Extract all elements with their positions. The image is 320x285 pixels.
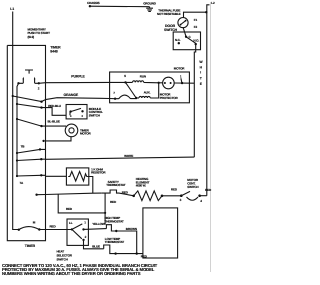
svg-text:T: T xyxy=(200,77,203,81)
svg-text:YELLOW: YELLOW xyxy=(92,222,104,226)
timer contact M xyxy=(18,229,20,231)
svg-text:RUN: RUN xyxy=(140,74,147,78)
timer box xyxy=(7,45,45,240)
svg-text:RED: RED xyxy=(50,224,57,228)
wire cent switch to L2 xyxy=(200,195,207,197)
svg-text:TB: TB xyxy=(21,144,26,148)
switch label push-to-start xyxy=(28,27,51,39)
svg-text:CHASSIS: CHASSIS xyxy=(87,1,100,5)
svg-text:9448: 9448 xyxy=(50,49,57,53)
timer contact TB stub xyxy=(21,144,26,148)
wire line A red xyxy=(46,193,102,194)
wire red to heat selector xyxy=(39,229,72,231)
chassis terminal xyxy=(87,1,100,5)
thermostat safety xyxy=(102,190,134,196)
svg-text:SWITCH: SWITCH xyxy=(164,28,178,32)
wire white vertical xyxy=(194,44,195,157)
svg-text:C: C xyxy=(189,35,192,39)
svg-text:LL: LL xyxy=(69,221,73,225)
timer contact line A xyxy=(35,194,37,196)
wire red-blu xyxy=(46,108,67,116)
svg-text:SWITCH: SWITCH xyxy=(57,258,69,262)
svg-text:4050 W.: 4050 W. xyxy=(136,184,146,188)
svg-text:TIMER: TIMER xyxy=(25,244,36,248)
svg-text:THERMOSTAT: THERMOSTAT xyxy=(104,220,124,224)
thermostat low temp xyxy=(104,245,116,254)
svg-text:4: 4 xyxy=(200,199,202,203)
module control switch xyxy=(66,105,87,119)
thermostat high temp xyxy=(106,225,116,231)
svg-text:H: H xyxy=(200,66,203,70)
svg-text:E: E xyxy=(200,82,203,86)
svg-text:ORANGE: ORANGE xyxy=(64,93,79,97)
ground xyxy=(146,7,153,12)
svg-text:RED: RED xyxy=(122,191,129,195)
motor out to white xyxy=(174,82,194,84)
motor protector xyxy=(158,82,160,84)
motor aux winding xyxy=(114,98,116,100)
svg-text:WHITE: WHITE xyxy=(124,154,133,158)
wire to resistor xyxy=(46,175,67,177)
svg-text:BROWN: BROWN xyxy=(126,227,138,231)
timer contact to red-blu xyxy=(16,103,18,105)
svg-text:BLUE: BLUE xyxy=(92,244,100,248)
door switch S1 xyxy=(164,24,178,32)
svg-text:2: 2 xyxy=(38,86,40,90)
svg-text:BL-BLUE: BL-BLUE xyxy=(48,119,60,123)
svg-text:THERMOSTAT: THERMOSTAT xyxy=(105,240,125,244)
svg-text:7: 7 xyxy=(113,91,115,95)
motor run winding xyxy=(124,81,126,83)
svg-text:2: 2 xyxy=(82,115,84,118)
svg-text:SWITCH: SWITCH xyxy=(187,185,199,189)
wire yellow xyxy=(84,228,107,231)
svg-text:GROUND: GROUND xyxy=(143,1,157,5)
node L1 xyxy=(10,7,14,11)
wire L1 bus xyxy=(13,12,19,230)
svg-text:3: 3 xyxy=(180,198,182,202)
motor box xyxy=(110,72,190,103)
wire chassis to ground xyxy=(90,5,150,8)
svg-text:F1: F1 xyxy=(194,18,198,22)
timer motor M1 xyxy=(65,124,78,137)
resistor R1 1K OHM xyxy=(66,168,88,185)
wire L2 vertical xyxy=(207,5,210,196)
svg-text:PURPLE: PURPLE xyxy=(71,75,85,79)
wire brown xyxy=(116,231,136,254)
svg-text:1: 1 xyxy=(180,74,182,78)
wire down to high temp xyxy=(104,193,106,225)
thermal fuse xyxy=(178,18,188,28)
wire fuse to door switch xyxy=(183,28,186,37)
svg-text:I: I xyxy=(200,71,201,75)
svg-text:4: 4 xyxy=(70,115,72,118)
svg-text:7A: 7A xyxy=(20,181,25,185)
switch motor centrifugal xyxy=(180,194,183,197)
svg-text:L1: L1 xyxy=(10,7,14,11)
svg-text:1: 1 xyxy=(84,221,86,225)
wire purple xyxy=(39,81,126,84)
switch push-to-start xyxy=(25,70,33,74)
wire white xyxy=(46,157,195,159)
node L2 xyxy=(211,1,215,5)
wire red low temp out xyxy=(116,253,143,255)
wire vertical to line B xyxy=(58,194,105,213)
wire bl-blue xyxy=(46,125,67,127)
wire resistor to heater line xyxy=(89,177,93,194)
svg-text:N.O.: N.O. xyxy=(193,39,199,43)
timer contact to orange xyxy=(12,95,14,97)
timer contact to white xyxy=(16,159,18,161)
svg-text:NUMBERS WHEN WRITING ABOUT THI: NUMBERS WHEN WRITING ABOUT THIS DRYER OR… xyxy=(2,271,141,276)
scan artifact right edge xyxy=(209,2,211,272)
heating element 4050W xyxy=(132,195,135,198)
svg-text:(9L9): (9L9) xyxy=(28,35,35,39)
net label WHITE vertical xyxy=(199,60,203,86)
motor cent switch arm xyxy=(126,82,137,98)
svg-text:RED: RED xyxy=(171,188,178,192)
svg-text:2: 2 xyxy=(85,235,87,239)
svg-text:RED-BLU: RED-BLU xyxy=(48,104,62,108)
timer internal bus xyxy=(17,83,19,176)
svg-text:SWITCH: SWITCH xyxy=(89,113,101,117)
svg-text:L2: L2 xyxy=(211,1,215,5)
svg-text:RED: RED xyxy=(205,188,212,192)
svg-text:RED: RED xyxy=(66,207,73,211)
heat selector switch xyxy=(67,219,88,245)
svg-text:THERMOSTAT: THERMOSTAT xyxy=(106,183,126,187)
note text xyxy=(2,263,158,276)
svg-text:5: 5 xyxy=(124,74,126,78)
svg-text:AUX.: AUX. xyxy=(144,90,151,94)
svg-text:PROTECTOR: PROTECTOR xyxy=(160,96,179,100)
svg-text:MOTOR: MOTOR xyxy=(174,66,186,70)
timer contact to bl-blue xyxy=(16,118,18,120)
svg-text:MOTOR: MOTOR xyxy=(80,132,92,136)
svg-text:NOT RESETABLE: NOT RESETABLE xyxy=(157,12,181,16)
svg-text:RESISTOR: RESISTOR xyxy=(91,171,106,175)
wire blue xyxy=(84,240,104,249)
thermal fuse F1 label xyxy=(157,8,181,16)
svg-text:RED: RED xyxy=(110,200,117,204)
switch label motor cent xyxy=(187,178,199,189)
svg-text:N.C.: N.C. xyxy=(175,38,181,42)
svg-text:F2: F2 xyxy=(194,25,198,29)
svg-text:W: W xyxy=(199,60,203,64)
wire to cent switch xyxy=(162,195,181,197)
heater housing box xyxy=(143,208,178,258)
svg-text:M: M xyxy=(33,221,36,225)
timer contact to resistor xyxy=(16,175,18,177)
wire fuse to L2 xyxy=(184,12,207,17)
wire timer motor return xyxy=(46,137,72,141)
wire orange xyxy=(46,98,116,100)
